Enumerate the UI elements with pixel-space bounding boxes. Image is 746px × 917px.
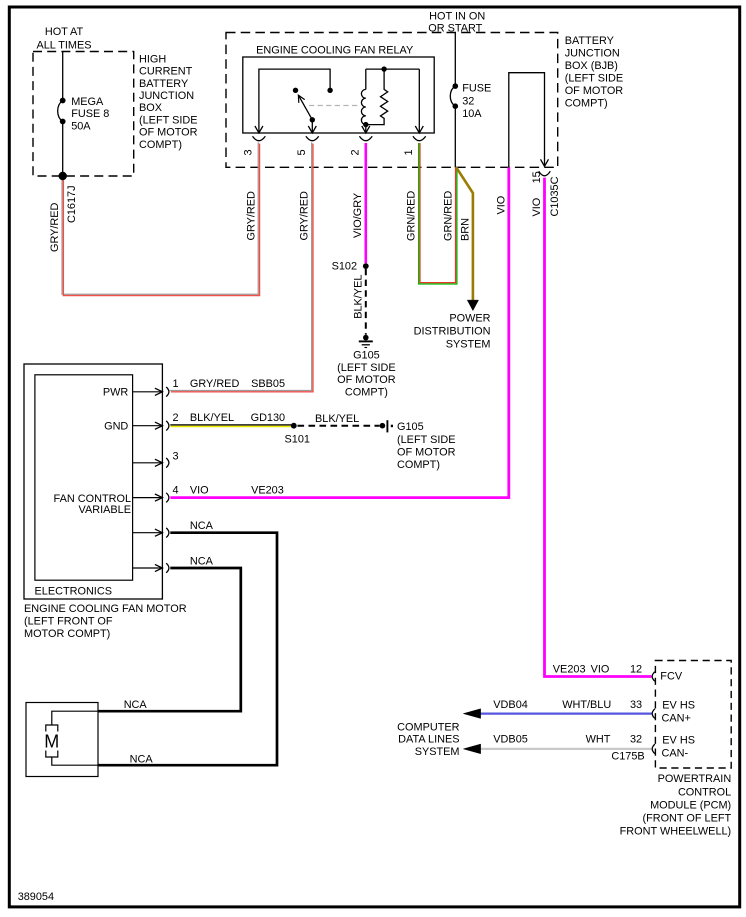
svg-text:BATTERY: BATTERY xyxy=(139,78,189,90)
svg-text:COMPUTER: COMPUTER xyxy=(397,722,459,734)
svg-text:MODULE (PCM): MODULE (PCM) xyxy=(650,799,731,811)
svg-text:OF MOTOR: OF MOTOR xyxy=(565,85,624,97)
svg-text:POWERTRAIN: POWERTRAIN xyxy=(658,773,732,785)
svg-text:POWER: POWER xyxy=(449,312,490,324)
svg-text:10A: 10A xyxy=(462,108,482,120)
svg-text:4: 4 xyxy=(173,485,179,497)
svg-text:BRN: BRN xyxy=(459,218,471,241)
svg-text:HOT IN ON: HOT IN ON xyxy=(429,10,485,22)
svg-text:(LEFT SIDE: (LEFT SIDE xyxy=(397,434,456,446)
svg-text:GD130: GD130 xyxy=(251,412,286,424)
svg-text:ENGINE COOLING FAN RELAY: ENGINE COOLING FAN RELAY xyxy=(256,45,414,57)
svg-text:HIGH: HIGH xyxy=(139,53,166,65)
svg-text:VARIABLE: VARIABLE xyxy=(79,504,131,516)
svg-text:WHT: WHT xyxy=(586,733,611,745)
svg-text:(LEFT FRONT OF: (LEFT FRONT OF xyxy=(24,616,113,628)
svg-text:GRN/RED: GRN/RED xyxy=(443,191,455,241)
svg-text:(LEFT SIDE: (LEFT SIDE xyxy=(139,114,198,126)
svg-text:SYSTEM: SYSTEM xyxy=(415,746,460,758)
svg-text:BATTERY: BATTERY xyxy=(565,35,615,47)
svg-text:M: M xyxy=(44,732,59,752)
svg-text:GRY/RED: GRY/RED xyxy=(190,378,240,390)
svg-text:WHT/BLU: WHT/BLU xyxy=(562,699,611,711)
svg-text:COMPT): COMPT) xyxy=(397,459,440,471)
svg-text:BOX (BJB): BOX (BJB) xyxy=(565,60,618,72)
svg-text:BOX: BOX xyxy=(139,102,163,114)
svg-text:15: 15 xyxy=(531,171,543,183)
svg-text:5: 5 xyxy=(296,149,308,155)
svg-text:GRN/RED: GRN/RED xyxy=(406,191,418,241)
svg-text:NCA: NCA xyxy=(190,556,214,568)
svg-text:VDB04: VDB04 xyxy=(493,699,528,711)
svg-text:VE203: VE203 xyxy=(553,663,586,675)
svg-text:S101: S101 xyxy=(285,434,310,446)
svg-text:FUSE: FUSE xyxy=(462,83,491,95)
svg-text:ENGINE COOLING FAN MOTOR: ENGINE COOLING FAN MOTOR xyxy=(24,603,187,615)
svg-text:OR START: OR START xyxy=(428,22,482,34)
svg-text:BLK/YEL: BLK/YEL xyxy=(315,413,359,425)
svg-text:389054: 389054 xyxy=(18,891,54,903)
svg-text:JUNCTION: JUNCTION xyxy=(565,47,620,59)
svg-text:32: 32 xyxy=(630,733,642,745)
svg-text:DATA LINES: DATA LINES xyxy=(398,734,459,746)
svg-text:G105: G105 xyxy=(397,421,424,433)
svg-text:3: 3 xyxy=(243,149,255,155)
svg-text:C175B: C175B xyxy=(611,751,644,763)
svg-text:FUSE 8: FUSE 8 xyxy=(71,108,109,120)
svg-text:VIO: VIO xyxy=(190,485,209,497)
svg-text:2: 2 xyxy=(349,149,361,155)
svg-text:33: 33 xyxy=(630,699,642,711)
svg-text:VIO: VIO xyxy=(495,196,507,215)
svg-text:GRY/RED: GRY/RED xyxy=(49,202,61,252)
svg-text:12: 12 xyxy=(630,663,642,675)
svg-text:50A: 50A xyxy=(71,120,91,132)
svg-text:HOT AT: HOT AT xyxy=(45,26,84,38)
svg-text:3: 3 xyxy=(173,450,179,462)
svg-text:1: 1 xyxy=(173,378,179,390)
svg-text:C1617J: C1617J xyxy=(66,185,78,223)
svg-text:BLK/YEL: BLK/YEL xyxy=(352,275,364,319)
svg-text:EV HS: EV HS xyxy=(662,735,695,747)
svg-text:CURRENT: CURRENT xyxy=(139,66,193,78)
svg-text:VIO: VIO xyxy=(591,663,610,675)
svg-text:(LEFT SIDE: (LEFT SIDE xyxy=(337,362,396,374)
svg-text:FCV: FCV xyxy=(660,670,683,682)
svg-text:SYSTEM: SYSTEM xyxy=(446,338,491,350)
svg-text:OF MOTOR: OF MOTOR xyxy=(397,446,456,458)
svg-text:FAN CONTROL: FAN CONTROL xyxy=(54,493,131,505)
svg-text:CAN-: CAN- xyxy=(662,748,689,760)
svg-text:JUNCTION: JUNCTION xyxy=(139,90,194,102)
svg-text:SBB05: SBB05 xyxy=(251,378,285,390)
svg-text:EV HS: EV HS xyxy=(662,699,695,711)
svg-text:MEGA: MEGA xyxy=(71,96,104,108)
svg-text:CONTROL: CONTROL xyxy=(678,786,731,798)
svg-text:G105: G105 xyxy=(353,350,380,362)
svg-text:DISTRIBUTION: DISTRIBUTION xyxy=(414,325,491,337)
svg-text:C1035C: C1035C xyxy=(549,176,561,216)
svg-text:ALL TIMES: ALL TIMES xyxy=(36,39,91,51)
svg-text:COMPT): COMPT) xyxy=(565,97,608,109)
svg-text:NCA: NCA xyxy=(124,699,148,711)
svg-text:ELECTRONICS: ELECTRONICS xyxy=(35,586,112,598)
svg-text:S102: S102 xyxy=(332,261,357,273)
svg-text:1: 1 xyxy=(403,149,415,155)
svg-text:NCA: NCA xyxy=(190,520,214,532)
svg-text:FRONT WHEELWELL): FRONT WHEELWELL) xyxy=(620,826,732,838)
svg-text:VIO/GRY: VIO/GRY xyxy=(352,192,364,238)
svg-text:VIO: VIO xyxy=(531,198,543,217)
svg-text:GRY/RED: GRY/RED xyxy=(245,191,257,241)
svg-text:MOTOR COMPT): MOTOR COMPT) xyxy=(24,628,110,640)
svg-text:CAN+: CAN+ xyxy=(662,712,691,724)
svg-text:NCA: NCA xyxy=(130,753,154,765)
svg-text:PWR: PWR xyxy=(103,386,129,398)
svg-text:VDB05: VDB05 xyxy=(493,733,528,745)
svg-text:(FRONT OF LEFT: (FRONT OF LEFT xyxy=(642,813,731,825)
svg-text:OF MOTOR: OF MOTOR xyxy=(139,127,198,139)
svg-text:OF MOTOR: OF MOTOR xyxy=(337,374,396,386)
svg-text:GRY/RED: GRY/RED xyxy=(299,191,311,241)
svg-text:(LEFT SIDE: (LEFT SIDE xyxy=(565,72,624,84)
svg-text:GND: GND xyxy=(104,420,128,432)
svg-text:COMPT): COMPT) xyxy=(345,386,388,398)
svg-text:BLK/YEL: BLK/YEL xyxy=(190,412,234,424)
svg-text:COMPT): COMPT) xyxy=(139,139,182,151)
svg-text:VE203: VE203 xyxy=(251,485,284,497)
svg-text:32: 32 xyxy=(462,95,474,107)
svg-text:2: 2 xyxy=(173,412,179,424)
